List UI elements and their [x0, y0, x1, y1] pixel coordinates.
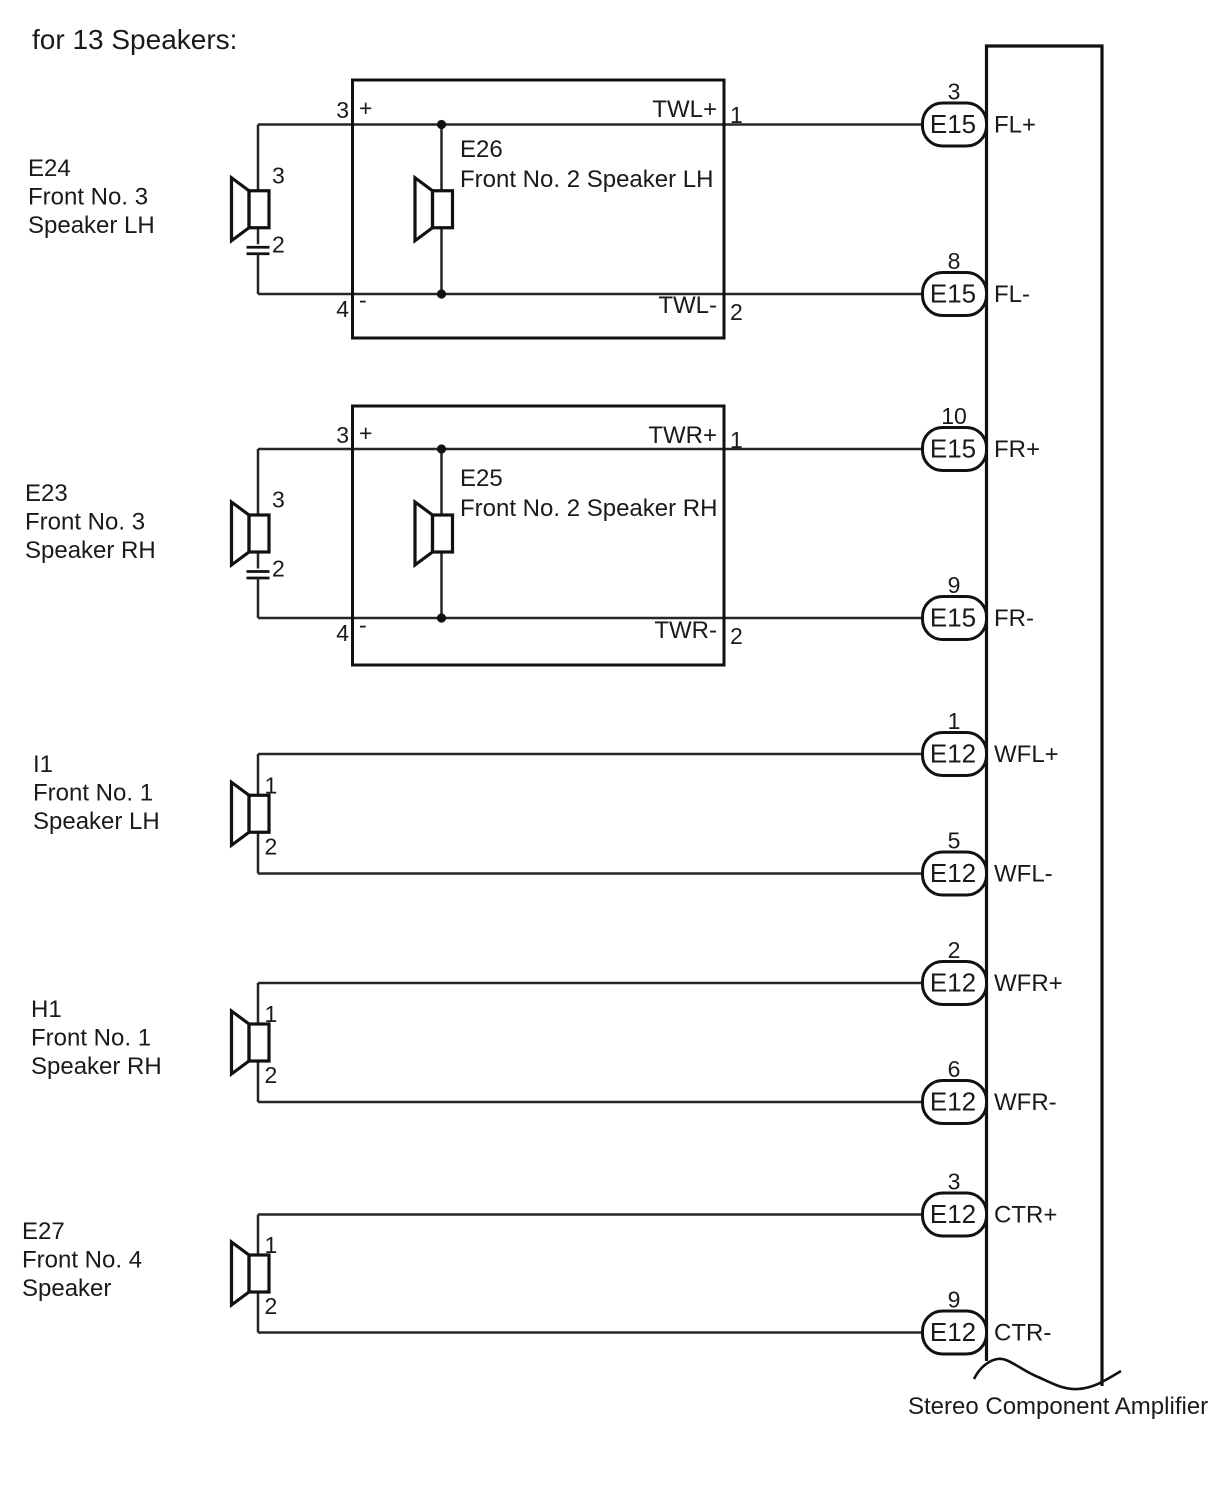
connector E12 pin 9 (E27 - side)	[923, 1311, 987, 1354]
capacitor (series with E24 tweeter)	[247, 247, 270, 254]
wire: junction to E26 + terminal	[440, 125, 443, 191]
junction node on TWL- line	[437, 289, 446, 298]
svg-text:-: -	[359, 612, 367, 638]
svg-text:1: 1	[265, 1232, 278, 1258]
svg-text:FL-: FL-	[994, 281, 1030, 308]
svg-text:2: 2	[265, 1062, 278, 1088]
connector E15 pin 8 (E24 - side)	[923, 273, 987, 316]
speaker symbol I1	[232, 782, 270, 845]
svg-text:Front No. 2 Speaker RH: Front No. 2 Speaker RH	[460, 495, 717, 522]
label block for E24 Front No. 3 Speaker LH	[28, 155, 155, 239]
svg-text:E15: E15	[930, 109, 976, 139]
svg-text:10: 10	[941, 403, 967, 429]
svg-text:3: 3	[272, 162, 285, 188]
svg-text:E24: E24	[28, 155, 71, 182]
label block for E27 Front No. 4 Speaker	[22, 1218, 142, 1302]
label block for H1 Front No. 1 Speaker RH	[31, 996, 162, 1080]
connector E15 pin 3 (E24 + side)	[923, 103, 987, 146]
wire: junction to E25 + terminal	[440, 449, 443, 515]
svg-text:Front No. 1: Front No. 1	[33, 780, 153, 807]
svg-text:E25: E25	[460, 465, 503, 492]
svg-text:Front No. 1: Front No. 1	[31, 1025, 151, 1052]
wire: E23 positive lead to connector (node FR+)	[258, 448, 923, 451]
connector E15 pin 9 (E23 - side)	[923, 597, 987, 640]
svg-text:for 13 Speakers:: for 13 Speakers:	[32, 24, 237, 55]
amplifier U1: Stereo Component Amplifier outline	[987, 46, 1103, 1386]
speaker symbol E24	[232, 178, 270, 241]
svg-text:Front No. 3: Front No. 3	[28, 184, 148, 211]
svg-text:E12: E12	[930, 1087, 976, 1117]
speaker symbol E25	[415, 502, 453, 565]
wire: H1 negative lead to connector (node WFR-)	[258, 1101, 923, 1104]
svg-text:E15: E15	[930, 434, 976, 464]
wire: I1 magnet to negative lead	[257, 832, 260, 873]
svg-text:2: 2	[272, 231, 285, 257]
svg-text:E12: E12	[930, 1199, 976, 1229]
svg-text:E27: E27	[22, 1218, 65, 1245]
enclosure box of E25 Front No. 2 Speaker RH	[353, 406, 725, 665]
svg-text:WFR-: WFR-	[994, 1089, 1057, 1116]
svg-text:FR-: FR-	[994, 605, 1034, 632]
wire: I1 negative lead to connector (node WFL-)	[258, 872, 923, 875]
wire: E24 positive lead to connector (node FL+)	[258, 123, 923, 126]
svg-text:FR+: FR+	[994, 436, 1040, 463]
wire: E27 magnet to negative lead	[257, 1292, 260, 1333]
wire: E27 positive lead to connector (node CTR+)	[258, 1213, 923, 1216]
svg-text:2: 2	[265, 1293, 278, 1319]
wire: vertical drop to I1 + terminal	[257, 754, 260, 795]
svg-text:1: 1	[730, 102, 743, 128]
svg-text:-: -	[359, 287, 367, 313]
wire: E26 - terminal to junction	[440, 228, 443, 294]
svg-text:Stereo Component Amplifier: Stereo Component Amplifier	[908, 1393, 1208, 1420]
svg-text:E12: E12	[930, 968, 976, 998]
svg-text:E23: E23	[25, 480, 68, 507]
enclosure box of E26 Front No. 2 Speaker LH	[353, 80, 725, 338]
connector E12 pin 6 (H1 - side)	[923, 1081, 987, 1124]
svg-text:E15: E15	[930, 603, 976, 633]
speaker symbol E26	[415, 178, 453, 241]
svg-text:E15: E15	[930, 279, 976, 309]
svg-text:E12: E12	[930, 1317, 976, 1347]
svg-text:Speaker LH: Speaker LH	[33, 808, 160, 835]
svg-text:I1: I1	[33, 751, 53, 778]
svg-text:+: +	[359, 420, 372, 446]
svg-text:3: 3	[272, 487, 285, 513]
svg-text:Front No. 2 Speaker LH: Front No. 2 Speaker LH	[460, 166, 713, 193]
junction node on TWR- line	[437, 613, 446, 622]
junction node on TWL+ line	[437, 120, 446, 129]
svg-text:2: 2	[730, 623, 743, 649]
svg-text:E12: E12	[930, 858, 976, 888]
svg-text:TWR-: TWR-	[654, 617, 717, 644]
svg-text:5: 5	[948, 828, 961, 854]
svg-text:Speaker LH: Speaker LH	[28, 212, 155, 239]
speaker symbol E27	[232, 1242, 270, 1305]
connector E15 pin 10 (E23 + side)	[923, 428, 987, 471]
wire: capacitor to E24 negative lead	[257, 254, 260, 294]
svg-text:2: 2	[265, 833, 278, 859]
svg-text:2: 2	[730, 299, 743, 325]
svg-text:9: 9	[948, 1287, 961, 1313]
svg-text:1: 1	[265, 772, 278, 798]
svg-text:9: 9	[948, 572, 961, 598]
svg-text:Speaker RH: Speaker RH	[31, 1053, 162, 1080]
speaker symbol H1	[232, 1011, 270, 1074]
svg-text:E26: E26	[460, 136, 503, 163]
junction node on TWR+ line	[437, 444, 446, 453]
svg-text:Speaker RH: Speaker RH	[25, 537, 156, 564]
wire: I1 positive lead to connector (node WFL+)	[258, 753, 923, 756]
svg-text:E12: E12	[930, 739, 976, 769]
svg-text:Front No. 4: Front No. 4	[22, 1247, 142, 1274]
svg-text:CTR-: CTR-	[994, 1320, 1051, 1347]
svg-text:1: 1	[730, 427, 743, 453]
svg-text:3: 3	[948, 79, 961, 105]
wire: E23 magnet to capacitor	[257, 552, 260, 569]
speaker symbol E23	[232, 502, 270, 565]
wire: H1 magnet to negative lead	[257, 1061, 260, 1102]
wire: vertical drop to H1 + terminal	[257, 983, 260, 1024]
wire: vertical drop to E27 + terminal	[257, 1215, 260, 1256]
svg-text:3: 3	[948, 1169, 961, 1195]
wire: H1 positive lead to connector (node WFR+)	[258, 982, 923, 985]
svg-text:2: 2	[948, 937, 961, 963]
wire: E24 magnet to capacitor	[257, 228, 260, 245]
connector E12 pin 2 (H1 + side)	[923, 962, 987, 1005]
svg-text:Front No. 3: Front No. 3	[25, 509, 145, 536]
connector E12 pin 5 (I1 - side)	[923, 852, 987, 895]
label block for E23 Front No. 3 Speaker RH	[25, 480, 156, 564]
svg-text:3: 3	[336, 97, 349, 123]
svg-text:2: 2	[272, 556, 285, 582]
svg-text:H1: H1	[31, 996, 62, 1023]
svg-text:3: 3	[336, 422, 349, 448]
wire: vertical drop to E23 + terminal	[257, 449, 260, 515]
svg-text:WFR+: WFR+	[994, 970, 1063, 997]
capacitor (series with E23 tweeter)	[247, 572, 270, 579]
wire: E25 - terminal to junction	[440, 552, 443, 618]
label block for I1 Front No. 1 Speaker LH	[33, 751, 160, 835]
svg-text:8: 8	[948, 248, 961, 274]
svg-text:Speaker: Speaker	[22, 1275, 111, 1302]
svg-text:6: 6	[948, 1056, 961, 1082]
svg-text:WFL-: WFL-	[994, 861, 1053, 888]
svg-text:CTR+: CTR+	[994, 1202, 1057, 1229]
svg-text:TWL-: TWL-	[658, 292, 717, 319]
svg-text:TWL+: TWL+	[652, 96, 717, 123]
svg-text:TWR+: TWR+	[648, 422, 717, 449]
wire: E27 negative lead to connector (node CTR-)	[258, 1331, 923, 1334]
svg-text:4: 4	[336, 620, 349, 646]
svg-text:WFL+: WFL+	[994, 741, 1059, 768]
wire: vertical drop to E24 + terminal	[257, 125, 260, 191]
wire: E24 negative lead to connector (node FL-)	[258, 293, 923, 296]
svg-text:FL+: FL+	[994, 112, 1036, 139]
svg-text:1: 1	[265, 1001, 278, 1027]
svg-text:+: +	[359, 95, 372, 121]
wire: E23 negative lead to connector (node FR-)	[258, 617, 923, 620]
amplifier torn-edge wave	[974, 1359, 1121, 1389]
svg-text:1: 1	[948, 708, 961, 734]
wire: capacitor to E23 negative lead	[257, 578, 260, 618]
connector E12 pin 3 (E27 + side)	[923, 1193, 987, 1236]
connector E12 pin 1 (I1 + side)	[923, 733, 987, 776]
svg-text:4: 4	[336, 296, 349, 322]
